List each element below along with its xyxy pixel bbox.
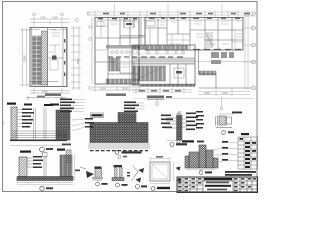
long axis line right part — [195, 61, 255, 63]
dash row under bubbles — [108, 56, 183, 58]
interior posts — [34, 108, 47, 139]
svg-text:3300: 3300 — [52, 16, 58, 20]
stair treads — [33, 36, 42, 85]
plan A left dim — [20, 28, 30, 86]
big plan title — [147, 96, 164, 99]
column stub — [118, 113, 136, 123]
stair zigzag in upper block — [206, 33, 213, 47]
right crosshatch block — [56, 110, 70, 140]
leader rows right of pier — [85, 118, 94, 128]
svg-text:4200: 4200 — [222, 91, 228, 95]
ground layer lines — [88, 144, 150, 148]
band texture under window band — [133, 59, 195, 64]
top dims row — [87, 3, 253, 17]
mid bubble row — [111, 51, 185, 54]
square detail — [150, 162, 170, 181]
long dim line y98.5 — [134, 98, 254, 100]
plan B bottom dims — [92, 84, 140, 92]
plan A right dims — [71, 26, 81, 90]
svg-text:4200: 4200 — [204, 91, 210, 95]
dark dashed row — [90, 150, 148, 152]
leader labels — [22, 109, 34, 128]
window dashes along top edge — [149, 17, 240, 19]
lower wing — [132, 45, 195, 87]
arrows — [86, 171, 94, 178]
upper block — [143, 18, 243, 51]
plan A top dims — [30, 17, 70, 28]
dark room cluster — [211, 52, 234, 64]
wide footing mass — [90, 123, 148, 143]
pier P2 — [118, 155, 121, 158]
svg-text:3600: 3600 — [100, 87, 106, 91]
svg-text:2700: 2700 — [40, 16, 46, 20]
small text under pier — [62, 144, 71, 146]
balcony band bottom — [106, 79, 139, 84]
plan A title — [45, 94, 61, 96]
bottom dim under wing — [132, 88, 192, 94]
right stepped edge + hatch — [199, 50, 251, 88]
corner symbol with arrows — [131, 165, 140, 181]
right dims — [243, 12, 255, 90]
boxed label left — [91, 113, 104, 118]
small hatch bar leftover — [66, 150, 71, 163]
svg-text:900: 900 — [2, 120, 5, 125]
title text block B label — [99, 146, 101, 148]
plan B top window dashes — [98, 18, 137, 20]
plan B title — [106, 94, 126, 96]
bottom dims right part — [198, 88, 250, 96]
floor layer lines — [11, 131, 67, 138]
svg-text:3900: 3900 — [77, 58, 80, 64]
plan A bottom dims — [30, 88, 70, 94]
sheet frame — [3, 2, 258, 192]
extra interior texture upper block — [167, 30, 243, 50]
bottom dim + label — [10, 145, 65, 147]
left hatched wall — [11, 107, 17, 140]
block B detail title text — [122, 151, 142, 153]
svg-text:3600: 3600 — [122, 87, 128, 91]
svg-text:6000: 6000 — [42, 90, 48, 94]
svg-text:12600: 12600 — [24, 54, 27, 62]
riser stub + bubble near 157,100 — [156, 97, 158, 102]
pier P1 — [95, 167, 102, 169]
junction rooms between left wing and right block — [120, 18, 145, 51]
dark dashes along y49 right part — [193, 48, 241, 50]
plan B axis bubbles left — [89, 26, 92, 29]
window bars on plan A right wall — [64, 39, 66, 76]
notes lines — [225, 171, 256, 173]
stair in plan B — [109, 58, 120, 71]
